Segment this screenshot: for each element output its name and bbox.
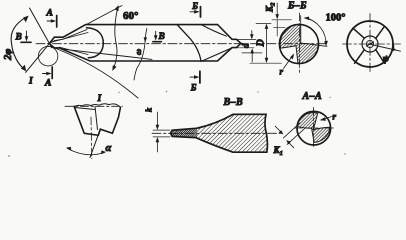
svg-text:I: I (97, 94, 102, 104)
svg-text:r: r (280, 67, 284, 77)
end view (343, 14, 401, 72)
K1 extension line 1 (283, 123, 300, 138)
alpha dimension arc (68, 149, 105, 155)
2phi lower line (26, 40, 53, 73)
end view inner circle (362, 36, 378, 52)
D dimension (250, 23, 282, 63)
detail I internal facet edge (75, 108, 95, 110)
spoke up-right (376, 26, 385, 38)
detail I flank line (90, 129, 100, 157)
60 deg lower extension line (56, 49, 138, 99)
2phi dimension arc (11, 17, 27, 70)
svg-text:k: k (144, 107, 154, 112)
spoke down-right (376, 50, 385, 64)
spoke down-left (355, 50, 365, 64)
ext line right pilot top (236, 38, 256, 40)
svg-text:2φ: 2φ (3, 49, 14, 61)
k dimension (153, 129, 170, 131)
60 deg dimension arc (113, 7, 118, 70)
end view vertical centerline (369, 14, 371, 72)
svg-text:Б: Б (190, 83, 197, 93)
Б-Б circle (279, 24, 318, 63)
section B middle marker (153, 31, 165, 42)
dense hatch on neck strip (166, 130, 207, 138)
svg-text:В: В (158, 32, 165, 42)
svg-text:α: α (106, 143, 112, 154)
detail I body outline (74, 106, 120, 135)
drill main outline (49, 25, 241, 62)
K1 arrow SE (289, 143, 294, 148)
svg-text:К1: К1 (273, 145, 283, 157)
detail I internal face line (95, 107, 98, 130)
svg-text:ω: ω (133, 49, 143, 55)
section Б bottom marker (190, 71, 200, 92)
detail I vertical centerline (90, 117, 93, 159)
svg-text:D: D (256, 39, 267, 47)
flute V notch right arm (201, 48, 231, 61)
end view horizontal centerline (343, 43, 401, 45)
chisel edge line (367, 42, 374, 46)
detail I view (65, 94, 123, 159)
svg-text:А: А (44, 79, 51, 89)
svg-text:Б: Б (191, 1, 198, 11)
detail I horizontal centerline (65, 105, 123, 107)
right head helix curve (201, 25, 227, 37)
detail circle I (38, 46, 58, 65)
back1 extension line (318, 45, 327, 46)
section Б top marker (190, 1, 201, 17)
svg-text:К2: К2 (265, 2, 277, 13)
svg-text:60°: 60° (123, 10, 138, 22)
2phi arc arrowhead bottom (21, 65, 26, 72)
end view center circle (366, 40, 373, 47)
section В-В view (144, 97, 282, 152)
psi cutting edge line (368, 44, 401, 51)
section B left marker (15, 31, 32, 43)
flute helix curve on body (177, 25, 201, 62)
60 deg upper extension line (86, 6, 122, 25)
section Б-Б view (279, 1, 345, 77)
svg-text:I: I (28, 77, 33, 87)
K2 dimension (265, 2, 292, 36)
K1 arrow NW (275, 126, 281, 132)
А-А hatched section body (297, 113, 330, 143)
svg-text:В: В (15, 33, 22, 43)
svg-text:100°: 100° (326, 13, 346, 24)
pilot cylinder inner edges (54, 36, 63, 38)
spoke up-left (353, 28, 365, 38)
section A bottom marker (43, 67, 53, 89)
В-В centerline (152, 132, 281, 134)
omega arc arrowhead at axis (144, 37, 147, 42)
face1 extension line (300, 16, 302, 25)
omega dimension arc (134, 29, 147, 81)
svg-text:d: d (241, 43, 251, 48)
В-В hatched section (171, 114, 268, 152)
2phi arc arrowhead top (23, 16, 29, 23)
svg-text:ψ: ψ (383, 55, 390, 65)
mystery line below right pilot (242, 52, 262, 54)
K1 extension line 2 (287, 128, 305, 144)
svg-text:А: А (46, 9, 53, 19)
svg-text:А–А: А–А (302, 91, 323, 102)
head internal lip line (49, 30, 87, 44)
60 arc arrowhead top (115, 5, 119, 11)
section А-А view (273, 91, 337, 157)
end view outer circle (347, 21, 393, 67)
section A top marker (46, 9, 57, 28)
paper specks (8, 91, 346, 157)
head internal heel line (59, 47, 88, 54)
centerline main axis (36, 43, 326, 45)
detail I wavy broken edge (75, 104, 121, 107)
psi dimension arc (392, 44, 395, 49)
А-А horizontal centerline (295, 127, 334, 129)
svg-text:В–В: В–В (223, 97, 244, 108)
line b lip visible edge (61, 49, 152, 60)
svg-text:Б–Б: Б–Б (287, 1, 307, 12)
ext line right pilot bottom (236, 47, 254, 49)
А-А circle (297, 111, 331, 145)
flute bulge arc (87, 28, 104, 58)
d dimension (241, 31, 255, 63)
2phi upper line (30, 8, 52, 48)
head internal cone edge (52, 33, 88, 43)
А-А vertical centerline (313, 108, 315, 149)
60 arc arrowhead bottom (112, 65, 116, 71)
100 deg dimension arc (305, 18, 326, 45)
Б-Б hatched section body (280, 25, 318, 64)
Б-Б vertical centerline (299, 13, 301, 73)
